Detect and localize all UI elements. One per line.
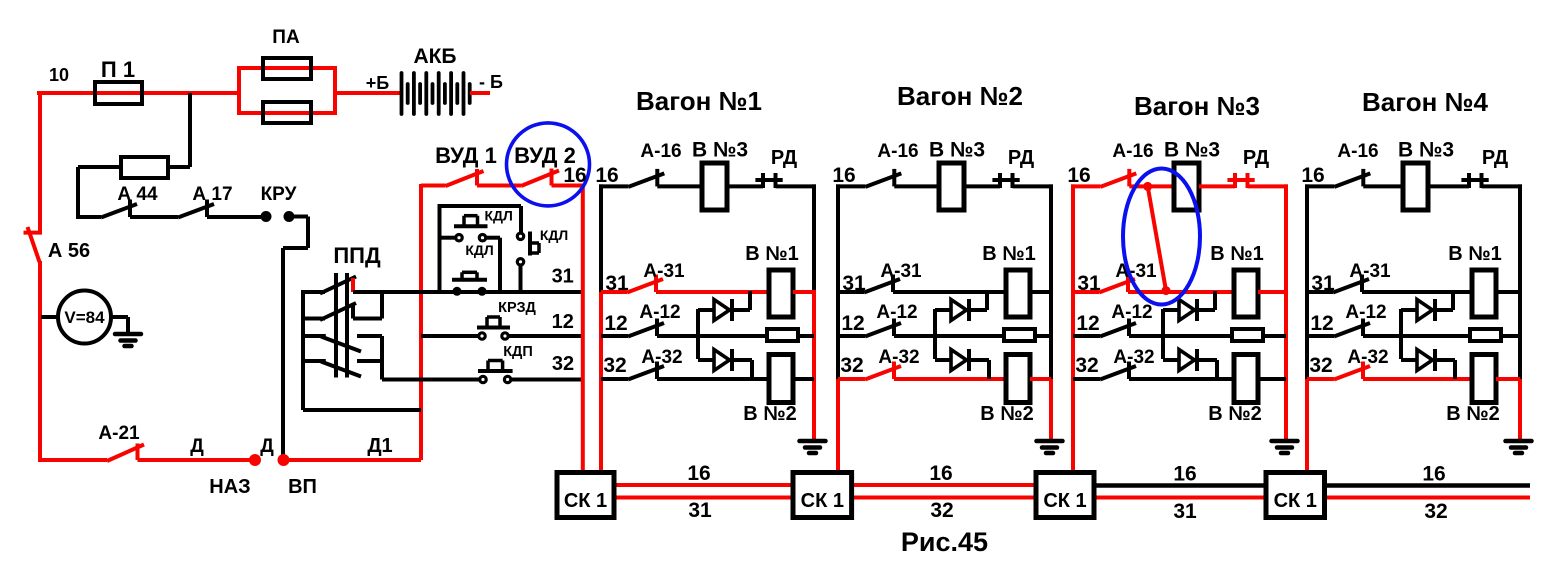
- svg-text:31: 31: [842, 272, 866, 295]
- svg-text:КДП: КДП: [503, 344, 533, 360]
- svg-text:А-16: А-16: [877, 141, 918, 162]
- svg-text:12: 12: [604, 312, 627, 335]
- svg-text:16: 16: [687, 462, 710, 485]
- svg-text:В №2: В №2: [1446, 403, 1499, 425]
- svg-text:П 1: П 1: [101, 57, 135, 82]
- svg-text:А 44: А 44: [117, 184, 158, 205]
- svg-text:НАЗ: НАЗ: [209, 476, 250, 498]
- svg-text:А-16: А-16: [1112, 141, 1153, 162]
- svg-text:А-31: А-31: [643, 261, 685, 282]
- svg-text:А-32: А-32: [641, 347, 682, 368]
- svg-text:СК 1: СК 1: [1274, 490, 1317, 512]
- svg-text:32: 32: [1309, 354, 1332, 377]
- svg-text:- Б: - Б: [479, 72, 503, 92]
- svg-text:А-12: А-12: [876, 302, 917, 323]
- svg-text:12: 12: [552, 311, 574, 333]
- svg-text:ВУД 1: ВУД 1: [435, 143, 497, 168]
- svg-text:В №1: В №1: [745, 243, 798, 265]
- svg-text:А-32: А-32: [1113, 347, 1154, 368]
- svg-text:КРУ: КРУ: [261, 184, 297, 205]
- svg-text:16: 16: [1422, 463, 1445, 486]
- svg-text:РД: РД: [1243, 147, 1269, 169]
- svg-text:В №3: В №3: [929, 139, 985, 162]
- svg-text:31: 31: [1311, 272, 1335, 295]
- svg-text:12: 12: [1310, 312, 1333, 335]
- svg-text:В №1: В №1: [1210, 243, 1263, 265]
- svg-text:КДЛ: КДЛ: [485, 208, 513, 224]
- svg-text:32: 32: [552, 353, 574, 375]
- svg-text:А 56: А 56: [48, 240, 90, 262]
- svg-text:16: 16: [563, 164, 586, 187]
- svg-text:ВП: ВП: [288, 476, 317, 498]
- svg-text:Д1: Д1: [367, 435, 392, 457]
- svg-text:А-31: А-31: [880, 261, 922, 282]
- svg-text:А-12: А-12: [639, 302, 680, 323]
- svg-text:31: 31: [605, 272, 629, 295]
- svg-text:СК 1: СК 1: [801, 490, 844, 512]
- svg-text:Д: Д: [190, 436, 204, 457]
- svg-text:А-31: А-31: [1349, 261, 1391, 282]
- svg-text:32: 32: [1075, 354, 1098, 377]
- svg-text:А-32: А-32: [1347, 347, 1388, 368]
- svg-text:ПА: ПА: [272, 27, 300, 48]
- svg-text:16: 16: [1173, 463, 1196, 486]
- svg-text:А-31: А-31: [1115, 261, 1157, 282]
- svg-text:16: 16: [1301, 164, 1324, 187]
- svg-text:В №3: В №3: [692, 139, 748, 162]
- svg-text:СК 1: СК 1: [1043, 490, 1086, 512]
- svg-text:А-12: А-12: [1345, 302, 1386, 323]
- svg-text:12: 12: [841, 312, 864, 335]
- svg-text:СК 1: СК 1: [564, 490, 607, 512]
- svg-text:31: 31: [1173, 500, 1197, 523]
- svg-text:+Б: +Б: [366, 73, 390, 93]
- svg-text:А-12: А-12: [1111, 302, 1152, 323]
- svg-text:V=84: V=84: [64, 308, 105, 327]
- svg-text:Вагон №4: Вагон №4: [1362, 87, 1489, 117]
- svg-text:16: 16: [595, 164, 618, 187]
- svg-text:32: 32: [603, 354, 626, 377]
- svg-text:А-21: А-21: [98, 423, 140, 444]
- svg-text:В №2: В №2: [1208, 403, 1261, 425]
- svg-text:Вагон №3: Вагон №3: [1134, 91, 1260, 121]
- svg-text:В №3: В №3: [1164, 139, 1220, 162]
- svg-text:Рис.45: Рис.45: [901, 527, 988, 557]
- svg-text:РД: РД: [771, 147, 797, 169]
- svg-text:А 17: А 17: [192, 184, 232, 205]
- svg-text:Вагон №1: Вагон №1: [636, 86, 762, 116]
- svg-text:КДЛ: КДЛ: [540, 227, 568, 243]
- svg-text:10: 10: [49, 65, 69, 85]
- svg-text:В №2: В №2: [980, 403, 1033, 425]
- svg-text:Вагон №2: Вагон №2: [897, 81, 1023, 111]
- svg-text:А-16: А-16: [1337, 141, 1378, 162]
- svg-text:31: 31: [552, 266, 574, 288]
- svg-text:А-32: А-32: [878, 347, 919, 368]
- svg-text:В №2: В №2: [743, 403, 796, 425]
- svg-text:КДЛ: КДЛ: [465, 242, 493, 258]
- svg-text:16: 16: [832, 164, 855, 187]
- svg-text:Д: Д: [260, 436, 274, 457]
- svg-text:В №1: В №1: [982, 243, 1035, 265]
- svg-text:31: 31: [688, 499, 712, 522]
- svg-text:РД: РД: [1482, 147, 1508, 169]
- svg-text:А-16: А-16: [640, 141, 681, 162]
- svg-text:КРЗД: КРЗД: [498, 300, 536, 316]
- svg-text:32: 32: [840, 354, 863, 377]
- svg-text:В №1: В №1: [1448, 243, 1501, 265]
- svg-text:ППД: ППД: [333, 243, 381, 268]
- svg-text:32: 32: [1424, 500, 1447, 523]
- svg-text:16: 16: [1067, 164, 1090, 187]
- svg-text:32: 32: [930, 499, 953, 522]
- svg-text:16: 16: [929, 462, 952, 485]
- svg-text:12: 12: [1076, 312, 1099, 335]
- svg-text:АКБ: АКБ: [413, 45, 456, 68]
- svg-text:В №3: В №3: [1398, 139, 1454, 162]
- svg-text:31: 31: [1077, 272, 1101, 295]
- svg-text:РД: РД: [1008, 147, 1034, 169]
